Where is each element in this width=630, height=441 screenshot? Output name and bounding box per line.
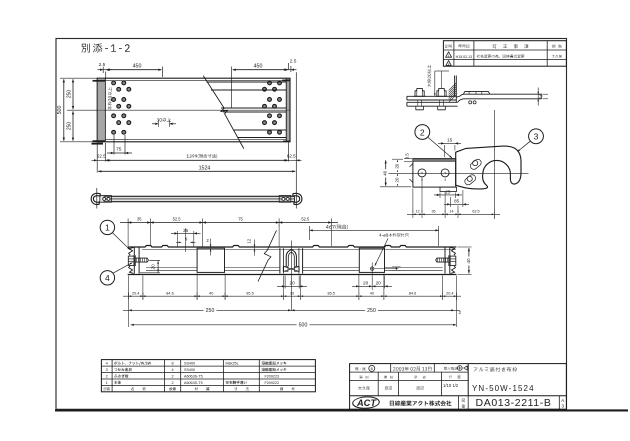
hook slot 1 bbox=[469, 158, 483, 171]
svg-text:85: 85 bbox=[454, 199, 460, 204]
plan left hole pattern bbox=[112, 81, 116, 85]
svg-text:9: 9 bbox=[185, 236, 188, 241]
title block grid bbox=[350, 364, 567, 410]
clamp tail bbox=[456, 94, 541, 102]
hook plate holes bbox=[418, 169, 426, 177]
hook dim 85 bbox=[449, 197, 451, 207]
svg-text:2: 2 bbox=[459, 310, 462, 315]
plan inner edge lines bbox=[105, 80, 286, 82]
hook detail centerlines bbox=[493, 110, 495, 219]
svg-text:250: 250 bbox=[66, 122, 72, 131]
section dim 40 right bbox=[458, 246, 472, 248]
hook bottom ext lines bbox=[412, 189, 414, 213]
section dim 250 250 bbox=[128, 300, 130, 327]
svg-text:1524: 1524 bbox=[199, 166, 211, 172]
revision table header bbox=[445, 45, 452, 48]
plan right long extension bbox=[295, 72, 297, 208]
svg-text:85.5: 85.5 bbox=[328, 291, 335, 295]
svg-text:3: 3 bbox=[562, 404, 565, 409]
svg-text:20: 20 bbox=[151, 264, 156, 270]
svg-text:H15.02.13: H15.02.13 bbox=[456, 55, 473, 59]
svg-text:1/10 1/2: 1/10 1/2 bbox=[443, 383, 459, 388]
elevation right hook bbox=[295, 188, 297, 209]
plan diagonal break line bbox=[203, 76, 244, 149]
svg-text:14: 14 bbox=[449, 209, 453, 213]
section hole 4-phi8 bbox=[371, 267, 374, 270]
plan left end cap bbox=[104, 78, 106, 142]
svg-text:75: 75 bbox=[116, 147, 122, 153]
svg-text:F209222: F209222 bbox=[265, 381, 280, 385]
svg-text:84.6: 84.6 bbox=[409, 291, 416, 295]
svg-text:52.5: 52.5 bbox=[301, 217, 310, 222]
plan dim 75 bbox=[113, 135, 115, 155]
svg-text:39: 39 bbox=[290, 291, 294, 295]
plan dim 2.5 left bbox=[102, 67, 104, 73]
clamp upper plate bbox=[407, 96, 457, 100]
svg-text:4: 4 bbox=[172, 368, 174, 372]
svg-text:95.5: 95.5 bbox=[246, 291, 253, 295]
section bottom extension lines bbox=[128, 276, 130, 300]
section dim 26 phi9 bbox=[177, 231, 179, 247]
svg-text:1: 1 bbox=[105, 223, 110, 233]
svg-text:A: A bbox=[561, 398, 565, 403]
company name bbox=[390, 401, 452, 406]
clamp wall hatch lines bbox=[454, 76, 456, 97]
svg-text:1: 1 bbox=[448, 54, 450, 58]
svg-text:20: 20 bbox=[395, 163, 400, 168]
section left cap bbox=[134, 247, 139, 273]
svg-text:20: 20 bbox=[395, 177, 400, 182]
svg-text:75: 75 bbox=[238, 217, 243, 222]
svg-text:B: B bbox=[371, 367, 374, 371]
parts table footer bbox=[103, 387, 110, 390]
svg-text:+: + bbox=[421, 170, 424, 175]
plan view outline bbox=[97, 78, 290, 142]
svg-text:84.6: 84.6 bbox=[166, 291, 173, 295]
svg-text:2: 2 bbox=[420, 127, 425, 137]
section bottom dim chain bbox=[123, 295, 461, 297]
revision row 2 bbox=[446, 61, 451, 66]
svg-text:7.6: 7.6 bbox=[538, 93, 543, 100]
clamp lower plate bbox=[407, 102, 458, 106]
section dim 20 under arch bbox=[284, 276, 286, 289]
clamp bolt at 419.6 bbox=[415, 89, 424, 97]
hook slot 2 bbox=[463, 173, 477, 186]
svg-text:450: 450 bbox=[254, 64, 263, 70]
svg-text:40: 40 bbox=[209, 291, 213, 295]
svg-text:A6063S-T5: A6063S-T5 bbox=[184, 381, 203, 385]
sheet label 別添-1-2 bbox=[81, 44, 129, 53]
hook dim 15 bbox=[443, 145, 445, 157]
paper bottom edge line bbox=[55, 409, 628, 411]
section dim 467 bbox=[310, 229, 439, 231]
svg-text:ACT: ACT bbox=[356, 398, 377, 408]
drawing border frame bbox=[56, 39, 567, 410]
hook plate bbox=[413, 159, 456, 188]
plan dim 250 250 bbox=[67, 109, 98, 111]
balloon 2 bbox=[415, 125, 430, 140]
title row B bbox=[359, 376, 368, 379]
svg-text:3.5: 3.5 bbox=[404, 153, 409, 160]
svg-text:450: 450 bbox=[133, 64, 142, 70]
plan view center line bbox=[97, 109, 290, 111]
plan dim 1399 bbox=[106, 159, 287, 161]
svg-text:1: 1 bbox=[106, 381, 108, 385]
section dim 20 at cap bbox=[149, 260, 160, 262]
plan dim 500 bbox=[60, 77, 98, 79]
svg-text:M8x25L: M8x25L bbox=[226, 362, 239, 366]
hook bottom dims 12 35 14 62.5 bbox=[407, 213, 500, 215]
svg-text:4: 4 bbox=[105, 273, 110, 283]
svg-text:+: + bbox=[444, 170, 447, 175]
svg-text:20.4: 20.4 bbox=[446, 291, 453, 295]
section top edge bbox=[128, 246, 457, 248]
section dim 20 20 right bbox=[358, 276, 360, 289]
title row A bbox=[355, 367, 366, 370]
plan dim 1524 bbox=[98, 170, 295, 172]
svg-text:40: 40 bbox=[370, 291, 374, 295]
balloon 4 bbox=[100, 271, 114, 285]
svg-text:20: 20 bbox=[289, 281, 295, 286]
plan right hole pattern bbox=[268, 81, 272, 85]
svg-text:500: 500 bbox=[57, 106, 63, 115]
section note 4-phi8 label bbox=[379, 233, 408, 237]
svg-text:2: 2 bbox=[106, 374, 108, 378]
svg-text:15: 15 bbox=[447, 138, 453, 143]
svg-text:35: 35 bbox=[431, 209, 435, 213]
svg-text:250: 250 bbox=[206, 308, 215, 314]
section top dim extension lines bbox=[127, 227, 129, 247]
svg-text:A6063S-T5: A6063S-T5 bbox=[184, 374, 203, 378]
plan rail edge lines bbox=[206, 81, 286, 83]
svg-text:25: 25 bbox=[445, 189, 451, 194]
svg-text:40: 40 bbox=[383, 170, 388, 175]
hook body bbox=[456, 146, 521, 189]
title part name bbox=[474, 367, 517, 372]
elevation bar bbox=[104, 195, 295, 197]
plan left rotated note 木枠20以上 bbox=[108, 87, 112, 110]
svg-text:52.5: 52.5 bbox=[173, 217, 182, 222]
plan dim 450 left bbox=[162, 67, 164, 78]
elevation left hook bbox=[96, 188, 98, 209]
svg-text:2.5: 2.5 bbox=[99, 62, 106, 68]
section arch post bbox=[279, 248, 281, 273]
section right cap bbox=[445, 247, 450, 273]
title row C bbox=[358, 386, 369, 390]
plan dim 450 right bbox=[231, 67, 233, 109]
svg-text:20: 20 bbox=[363, 281, 369, 286]
svg-text:3: 3 bbox=[534, 132, 539, 142]
svg-text:DA013-2211-B: DA013-2211-B bbox=[476, 397, 552, 409]
svg-text:500: 500 bbox=[299, 323, 308, 329]
svg-text:F209223: F209223 bbox=[265, 374, 280, 378]
section inner top line bbox=[142, 248, 456, 250]
clamp dim 7.6 bbox=[543, 93, 548, 95]
section dim 500 bbox=[131, 324, 457, 326]
svg-text:SS400: SS400 bbox=[184, 368, 195, 372]
zuban cell bbox=[462, 399, 465, 402]
parts table grid bbox=[101, 360, 315, 392]
section notch left bbox=[197, 248, 224, 272]
svg-text:12: 12 bbox=[415, 209, 419, 213]
hook dims 20 20 40 bbox=[392, 158, 403, 160]
clamp bolt at 441.5 bbox=[437, 89, 446, 97]
svg-text:20: 20 bbox=[376, 281, 382, 286]
plan right end cap bbox=[285, 78, 287, 142]
svg-text:2.5: 2.5 bbox=[290, 59, 297, 65]
svg-text:35: 35 bbox=[137, 217, 142, 222]
svg-text:8: 8 bbox=[172, 362, 174, 366]
hook dim 25 bbox=[439, 193, 441, 199]
balloon 1 bbox=[100, 220, 114, 234]
svg-text:62.5: 62.5 bbox=[472, 209, 479, 213]
svg-text:12: 12 bbox=[247, 238, 252, 243]
section inner bottom flange lines bbox=[146, 266, 197, 268]
section top dim chain 35 52.5 75 52.5 bbox=[120, 222, 338, 224]
svg-text:2: 2 bbox=[172, 381, 174, 385]
svg-text:250: 250 bbox=[367, 308, 376, 314]
svg-text:250: 250 bbox=[66, 90, 72, 99]
svg-text:40: 40 bbox=[466, 258, 471, 264]
svg-text:2: 2 bbox=[206, 238, 209, 243]
svg-text:SS400: SS400 bbox=[184, 362, 195, 366]
section notch right bbox=[359, 248, 384, 272]
revision table grid bbox=[443, 41, 566, 66]
svg-text:3: 3 bbox=[106, 368, 108, 372]
svg-text:4: 4 bbox=[106, 362, 108, 366]
revision row 1 bbox=[446, 52, 452, 57]
balloon 3 bbox=[529, 129, 544, 144]
section break line bbox=[258, 230, 277, 281]
company logo ACT bbox=[351, 397, 380, 408]
plan note 30以上 bbox=[157, 118, 172, 122]
svg-text:YN-50W-1524: YN-50W-1524 bbox=[472, 384, 535, 393]
svg-text:2: 2 bbox=[172, 374, 174, 378]
svg-text:20.4: 20.4 bbox=[132, 291, 139, 295]
hook plate tab bbox=[440, 187, 457, 191]
section bottom edge bbox=[128, 274, 457, 276]
svg-text:62.5: 62.5 bbox=[97, 153, 106, 158]
clamp dim 木枠20以上 bbox=[427, 65, 431, 87]
